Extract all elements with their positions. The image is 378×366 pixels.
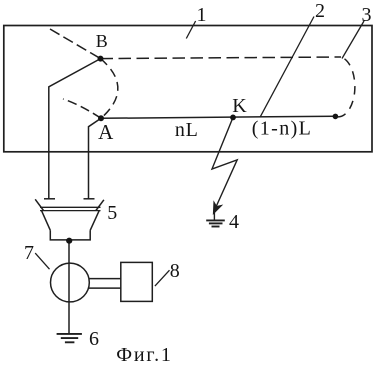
svg-text:4: 4 [229, 211, 239, 233]
svg-text:1: 1 [197, 4, 207, 26]
svg-text:(1-n)L: (1-n)L [252, 118, 313, 140]
svg-text:nL: nL [175, 119, 199, 141]
svg-text:A: A [98, 120, 114, 144]
svg-text:2: 2 [315, 0, 325, 22]
svg-text:Фиг.1: Фиг.1 [116, 344, 172, 366]
svg-text:3: 3 [362, 4, 372, 26]
svg-text:6: 6 [89, 328, 99, 350]
svg-text:B: B [96, 31, 108, 51]
svg-text:K: K [232, 95, 247, 117]
svg-text:8: 8 [170, 260, 180, 282]
svg-text:5: 5 [107, 202, 117, 224]
svg-text:7: 7 [24, 242, 34, 264]
